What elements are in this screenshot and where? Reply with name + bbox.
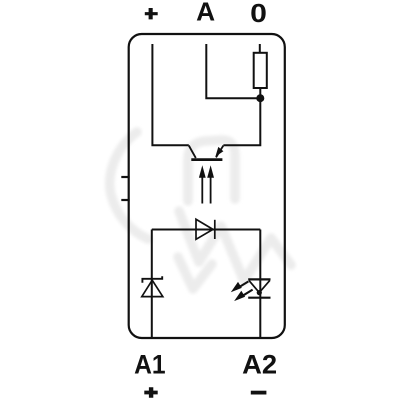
wire resistor to junction and down to transistor — [223, 88, 260, 145]
junction node dot — [256, 94, 264, 102]
terminal tick mark lower — [121, 199, 129, 201]
light arrows into Q1 (optocoupler) — [199, 165, 214, 203]
svg-text:0: 0 — [250, 0, 267, 28]
resistor R1 — [254, 53, 267, 88]
wire right branch to A2 — [259, 230, 261, 339]
wire left branch to A1 — [151, 230, 153, 339]
polarity label + (bottom) — [144, 387, 157, 398]
diode D1 — [196, 219, 215, 239]
relay module outline — [129, 34, 285, 338]
LED emission arrows — [231, 282, 253, 302]
terminal tick mark upper — [121, 176, 129, 178]
svg-text:A2: A2 — [242, 350, 277, 380]
polarity label − (bottom) — [251, 391, 267, 395]
zener diode Z1 — [142, 276, 163, 296]
transistor Q1 (PNP) — [189, 146, 224, 160]
terminal label + (top) — [145, 8, 158, 19]
svg-text:A: A — [196, 0, 215, 27]
wire coil-row horizontal — [152, 229, 260, 231]
LED D2 — [248, 279, 270, 297]
wire from A terminal to junction — [206, 44, 259, 98]
wire from 0 terminal to resistor — [259, 44, 261, 53]
svg-text:A1: A1 — [134, 350, 166, 380]
wire from + terminal to transistor — [152, 44, 188, 145]
